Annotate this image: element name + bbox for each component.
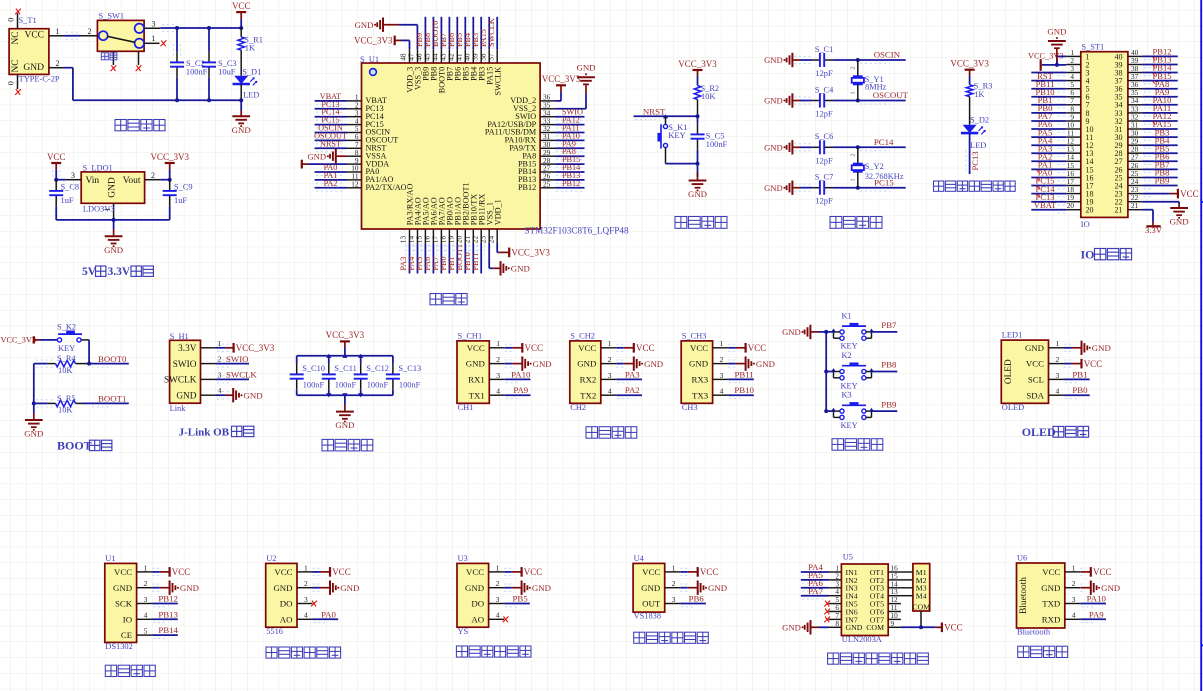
svg-text:GND: GND [1092, 343, 1111, 353]
ground reset [688, 164, 707, 200]
svg-text:S_C12: S_C12 [366, 364, 389, 373]
crystal Y1 [850, 60, 887, 101]
junction [824, 370, 828, 374]
wire [33, 364, 35, 404]
wire net BOOT1 [462, 244, 469, 274]
svg-text:GND: GND [355, 20, 374, 30]
node NRST [320, 139, 341, 148]
wire net PB6 [680, 604, 706, 607]
svg-text:VCC_3V3: VCC_3V3 [542, 74, 581, 84]
svg-text:24: 24 [486, 236, 495, 244]
wire net PA10 [555, 140, 584, 143]
wire net PB13 [152, 619, 178, 622]
node PA11 [562, 124, 580, 133]
pin header H1 J-Link [164, 339, 222, 403]
wire [504, 584, 513, 591]
svg-text:1: 1 [1056, 339, 1060, 348]
svg-text:GND: GND [1047, 26, 1066, 36]
caption OLED显示屏 [1022, 425, 1089, 439]
node PA10 [1087, 594, 1107, 604]
power flag VCC [512, 343, 543, 353]
wire net PB8 [430, 17, 437, 49]
svg-text:25: 25 [543, 180, 551, 189]
ground C4 side [764, 93, 800, 107]
wire [56, 219, 170, 221]
svg-text:S_C10: S_C10 [302, 364, 325, 373]
ground C1 side [764, 53, 800, 67]
label TYPE-C-2P [19, 75, 60, 84]
node PA10 [1153, 95, 1172, 105]
svg-text:20: 20 [1086, 206, 1094, 215]
svg-text:0: 0 [6, 18, 15, 22]
label S_CH1 [458, 331, 483, 340]
svg-text:14: 14 [891, 580, 899, 588]
node PA3 [625, 369, 640, 379]
svg-text:TX1: TX1 [469, 390, 485, 400]
svg-text:4: 4 [496, 387, 500, 396]
svg-text:100nF: 100nF [186, 68, 208, 77]
caption 程序运行指示灯 [934, 181, 1016, 191]
junction [87, 362, 91, 366]
svg-text:4: 4 [304, 611, 308, 620]
svg-text:PA0: PA0 [321, 609, 336, 619]
label S_SW1 [99, 11, 125, 20]
junction [358, 393, 363, 397]
svg-text:LED1: LED1 [1002, 331, 1022, 340]
wire [794, 144, 813, 151]
no-connect X switch pin1 [161, 40, 167, 46]
wire net PB3 [478, 17, 485, 49]
wire net PA10 [1142, 105, 1177, 108]
svg-text:GND: GND [756, 359, 775, 369]
svg-text:PB9: PB9 [881, 399, 897, 409]
node PB10 [1035, 87, 1054, 97]
wire [666, 163, 698, 165]
svg-text:2: 2 [850, 153, 857, 156]
node PB5 [1155, 143, 1170, 153]
resistor R1 [238, 28, 263, 76]
svg-text:PB11: PB11 [471, 253, 480, 271]
wire net PB13 [1142, 65, 1177, 68]
wire net PB12 [1142, 56, 1177, 59]
push-button K2 [831, 363, 873, 380]
wire net PB9 [872, 410, 898, 412]
node PA9 [1089, 609, 1104, 619]
svg-text:GND: GND [465, 583, 484, 593]
wire net PB6 [454, 17, 461, 49]
capacitor C7 [813, 173, 834, 206]
module LED1 [1001, 339, 1064, 403]
svg-text:1: 1 [496, 563, 500, 572]
svg-text:3: 3 [304, 595, 308, 604]
no-connect X top pin T1 [15, 9, 21, 15]
wire net PB3 [1142, 137, 1177, 140]
svg-text:1K: 1K [974, 90, 984, 99]
wire net PB11 [478, 244, 485, 274]
junction [856, 186, 860, 190]
node PB9 [881, 399, 897, 409]
wire net PB12 [555, 188, 584, 191]
ground stepper [782, 620, 828, 634]
node PB1 [1072, 369, 1087, 379]
wire net PC15 [315, 125, 347, 128]
resistor R4 [48, 354, 90, 375]
svg-text:1K: 1K [245, 43, 255, 52]
node BOOT0 [98, 354, 127, 364]
svg-text:GND: GND [764, 143, 783, 153]
power flag VCC [624, 343, 655, 353]
label 开关 [101, 53, 117, 60]
resistor R5 [48, 394, 83, 415]
wire net BOOT0 [89, 364, 129, 367]
no-connect X switch pin5 [136, 65, 142, 71]
wire net SWIO [216, 360, 249, 367]
wire [1142, 194, 1169, 197]
svg-text:3: 3 [1072, 595, 1076, 604]
svg-text:1uF: 1uF [174, 196, 187, 205]
svg-text:U5: U5 [843, 553, 853, 562]
label KEY [668, 131, 685, 140]
wire net PB14 [555, 172, 584, 175]
svg-text:RX3: RX3 [691, 375, 708, 385]
wire net PA4 [801, 572, 829, 575]
caption J-Link OB接口 [179, 426, 254, 438]
wire net PA6 [430, 244, 437, 274]
svg-text:OUT: OUT [642, 599, 661, 609]
wire net PB15 [1142, 81, 1177, 84]
ground vss1 [493, 261, 530, 275]
module U4 [633, 563, 680, 612]
wire net RST [1031, 81, 1066, 84]
svg-text:VCC: VCC [700, 567, 719, 577]
node VBAT [1034, 200, 1057, 210]
node PA2 [1038, 152, 1053, 162]
svg-text:100nF: 100nF [399, 381, 421, 390]
svg-text:S_C9: S_C9 [174, 182, 193, 191]
junction [358, 354, 363, 358]
svg-text:Link: Link [170, 404, 187, 413]
wire net SWIO [555, 117, 584, 120]
label KEY K2 [841, 381, 858, 390]
node PA5 [1038, 127, 1053, 137]
svg-text:4: 4 [835, 588, 839, 596]
node PB7 [439, 33, 448, 47]
node PB3 [471, 33, 480, 47]
wire [56, 179, 65, 181]
svg-text:1: 1 [496, 339, 500, 348]
node PA15 [1153, 119, 1172, 129]
node PB4 [463, 33, 472, 47]
svg-text:RXD: RXD [1042, 614, 1061, 624]
svg-text:YS: YS [458, 627, 469, 636]
svg-text:GND: GND [782, 327, 801, 337]
node PB13 [1152, 55, 1171, 65]
label CH2 [570, 403, 586, 412]
node PA3 [1038, 143, 1053, 153]
svg-text:S_K2: S_K2 [57, 322, 76, 331]
svg-text:VCC: VCC [274, 567, 292, 577]
svg-text:K3: K3 [842, 391, 852, 400]
push-button K1 [831, 323, 873, 340]
no-connect X bottom pin T1 [15, 89, 21, 95]
label Link [170, 404, 187, 413]
svg-text:KEY: KEY [58, 344, 75, 353]
node PB6 [689, 594, 705, 604]
junction [326, 393, 331, 397]
wire [152, 568, 162, 575]
svg-text:U6: U6 [1017, 553, 1027, 562]
node OSCOUT [314, 131, 347, 140]
power flag VCC io23 [1170, 189, 1199, 199]
svg-text:PB1: PB1 [1072, 369, 1087, 379]
wire [297, 355, 393, 357]
regulator LDO1 [66, 171, 161, 220]
wire net SWCLK [494, 17, 501, 49]
svg-text:GND: GND [782, 623, 801, 633]
wire [833, 147, 906, 150]
svg-text:11: 11 [891, 604, 898, 612]
wire net PA0 [1031, 178, 1066, 181]
connector T1 TYPE-C-2P [6, 13, 64, 89]
label S_ST1 [1081, 43, 1104, 52]
wire [680, 568, 690, 575]
power flag VCC_3V3 vdd2 [542, 74, 581, 101]
node RST [1037, 71, 1054, 81]
svg-text:IO: IO [1081, 248, 1095, 262]
svg-text:3: 3 [835, 580, 839, 588]
motor header M1-M4 [901, 564, 930, 628]
ground C6 side [764, 140, 800, 154]
wire net PA12 [555, 125, 584, 128]
svg-text:2: 2 [672, 579, 676, 588]
label S_T1 [19, 16, 37, 25]
svg-text:4: 4 [1072, 611, 1076, 620]
caption 串口电路 [586, 427, 637, 439]
node PB1 [1038, 95, 1053, 105]
ground io22 [1170, 204, 1189, 227]
node PA12 [562, 116, 580, 125]
label ULN2003A [842, 635, 882, 644]
label S_U1 [360, 55, 379, 64]
svg-text:100nF: 100nF [706, 140, 728, 149]
svg-text:10K: 10K [58, 406, 72, 415]
svg-text:9: 9 [891, 620, 895, 628]
resistor R2 [694, 76, 719, 116]
svg-text:S_C4: S_C4 [815, 85, 834, 94]
ground [512, 581, 551, 595]
wire [65, 32, 81, 39]
svg-text:10K: 10K [58, 366, 72, 375]
node PB3 [1155, 127, 1170, 137]
wire net PB1 [454, 244, 461, 274]
node PA7 [808, 586, 823, 596]
label CH1 [458, 403, 474, 412]
svg-text:VCC: VCC [1093, 567, 1112, 577]
ground io-top [1047, 26, 1066, 65]
svg-text:2: 2 [850, 66, 857, 69]
svg-text:GND: GND [113, 583, 132, 593]
svg-text:3: 3 [720, 371, 724, 380]
ground [320, 581, 359, 595]
svg-text:1: 1 [144, 563, 148, 572]
caption 时钟模块 [105, 665, 155, 676]
node SWCLK [487, 18, 496, 47]
svg-text:OLED: OLED [1002, 403, 1024, 412]
svg-text:PB9: PB9 [1155, 176, 1170, 186]
ground [104, 220, 123, 255]
svg-text:U2: U2 [266, 554, 276, 563]
node PB11 [471, 253, 480, 271]
svg-text:U4: U4 [634, 554, 645, 563]
node PA11 [1153, 103, 1171, 113]
node PB14 [562, 163, 580, 172]
IC U5 ULN2003A [829, 564, 901, 636]
wire net PA9 [1080, 619, 1106, 622]
junction [856, 58, 860, 62]
node PA8 [562, 147, 576, 156]
svg-text:3.3V: 3.3V [178, 344, 197, 354]
no-connect X [824, 609, 830, 615]
svg-text:IO: IO [1081, 220, 1090, 229]
svg-text:12pF: 12pF [815, 110, 833, 119]
power flag VCC ldo-in [47, 152, 66, 169]
wire net PA3 [406, 244, 413, 274]
node PC15 [874, 177, 894, 187]
label LED1 [1002, 331, 1022, 340]
label K3 [842, 391, 852, 400]
svg-text:S_Y2: S_Y2 [865, 162, 884, 171]
wire net PB8 [872, 371, 898, 373]
junction [663, 114, 668, 118]
no-connect X [311, 601, 317, 607]
module U1 [105, 563, 152, 642]
node PC13 [1035, 192, 1054, 202]
svg-text:21: 21 [1131, 201, 1139, 210]
wire [728, 360, 738, 367]
label K2 [842, 351, 852, 360]
wire [1042, 64, 1057, 66]
wire [72, 68, 74, 101]
svg-text:6: 6 [835, 604, 839, 612]
capacitor C6 [813, 132, 834, 165]
switch SW1 [81, 20, 160, 65]
capacitor C4 [813, 85, 834, 118]
svg-text:32.768KHz: 32.768KHz [865, 172, 904, 181]
wire net PA11 [555, 133, 584, 136]
node PA7 [1038, 111, 1053, 121]
svg-text:VCC_3V3: VCC_3V3 [354, 36, 393, 46]
wire net PA7 [801, 596, 829, 599]
wire [1080, 568, 1083, 575]
node PC13 [321, 100, 339, 109]
node PB1 [447, 256, 456, 270]
junction [168, 178, 172, 182]
svg-text:OLED: OLED [1004, 359, 1014, 384]
svg-text:VCC: VCC [47, 152, 66, 162]
svg-text:12pF: 12pF [815, 197, 833, 206]
wire net PA0 [313, 619, 339, 622]
wire net PB0 [1031, 113, 1066, 116]
wire net PB11 [1031, 89, 1066, 92]
svg-text:IO: IO [123, 614, 132, 624]
junction [175, 26, 179, 30]
svg-text:CH2: CH2 [570, 403, 586, 412]
wire net VBAT [1031, 210, 1066, 213]
wire net PB6 [1142, 161, 1177, 164]
node PA9 [1155, 87, 1170, 97]
node PB11 [1036, 79, 1055, 89]
svg-text:GND: GND [335, 420, 354, 430]
junction [919, 625, 923, 629]
wire net PA3 [1031, 153, 1066, 156]
svg-text:2: 2 [835, 572, 839, 580]
svg-text:BOOT0: BOOT0 [98, 354, 127, 364]
svg-text:3.3V: 3.3V [1145, 225, 1163, 235]
svg-text:VCC_3V3: VCC_3V3 [150, 152, 189, 162]
node PC14 [874, 137, 894, 147]
svg-text:PB0: PB0 [1072, 385, 1088, 395]
svg-text:S_T1: S_T1 [19, 16, 37, 25]
svg-text:PB12: PB12 [518, 183, 536, 192]
svg-text:GND: GND [176, 391, 196, 401]
power flag VCC stepper [936, 623, 963, 633]
svg-text:GND: GND [641, 583, 660, 593]
svg-text:TYPE-C-2P: TYPE-C-2P [19, 75, 60, 84]
svg-text:PA2: PA2 [625, 385, 640, 395]
wire net PA5 [422, 244, 429, 274]
wire [160, 24, 241, 31]
wire net PB15 [555, 164, 584, 167]
ground [624, 356, 663, 370]
wire net PC14 [1031, 194, 1066, 197]
capacitor C11 [322, 356, 357, 396]
push-button K2 boot [57, 331, 89, 364]
wire net PB10 [470, 244, 477, 274]
svg-text:GND: GND [104, 245, 123, 255]
wire net SWCLK [216, 376, 249, 383]
svg-text:SWIO: SWIO [226, 354, 248, 364]
wire [34, 400, 54, 407]
svg-text:2: 2 [88, 27, 92, 36]
node PA5 [808, 570, 823, 580]
wire net PB14 [152, 635, 178, 638]
svg-text:1: 1 [152, 34, 156, 43]
svg-text:2: 2 [1072, 579, 1076, 588]
node PB5 [455, 33, 464, 47]
label U6 [1017, 553, 1027, 562]
svg-text:Vin: Vin [86, 176, 100, 186]
svg-text:CH3: CH3 [682, 403, 698, 412]
junction [207, 98, 211, 102]
svg-text:PB6: PB6 [689, 594, 705, 604]
label OLED [1002, 403, 1024, 412]
caption 复位电路 [675, 217, 727, 229]
wire net PB4 [1142, 145, 1177, 148]
wire net PA2 [1031, 161, 1066, 164]
node PA4 [407, 257, 416, 271]
power flag VCC_3V3 led [950, 59, 989, 85]
svg-text:1: 1 [56, 27, 60, 36]
wire [680, 584, 690, 591]
ground boot [24, 403, 43, 438]
svg-text:S_H1: S_H1 [170, 332, 189, 341]
wire [826, 410, 833, 412]
node PB13 [562, 171, 580, 180]
svg-text:VCC: VCC [944, 623, 963, 633]
wire net PA10 [1080, 604, 1106, 607]
node PB8 [1155, 168, 1170, 178]
svg-text:10: 10 [891, 612, 899, 620]
